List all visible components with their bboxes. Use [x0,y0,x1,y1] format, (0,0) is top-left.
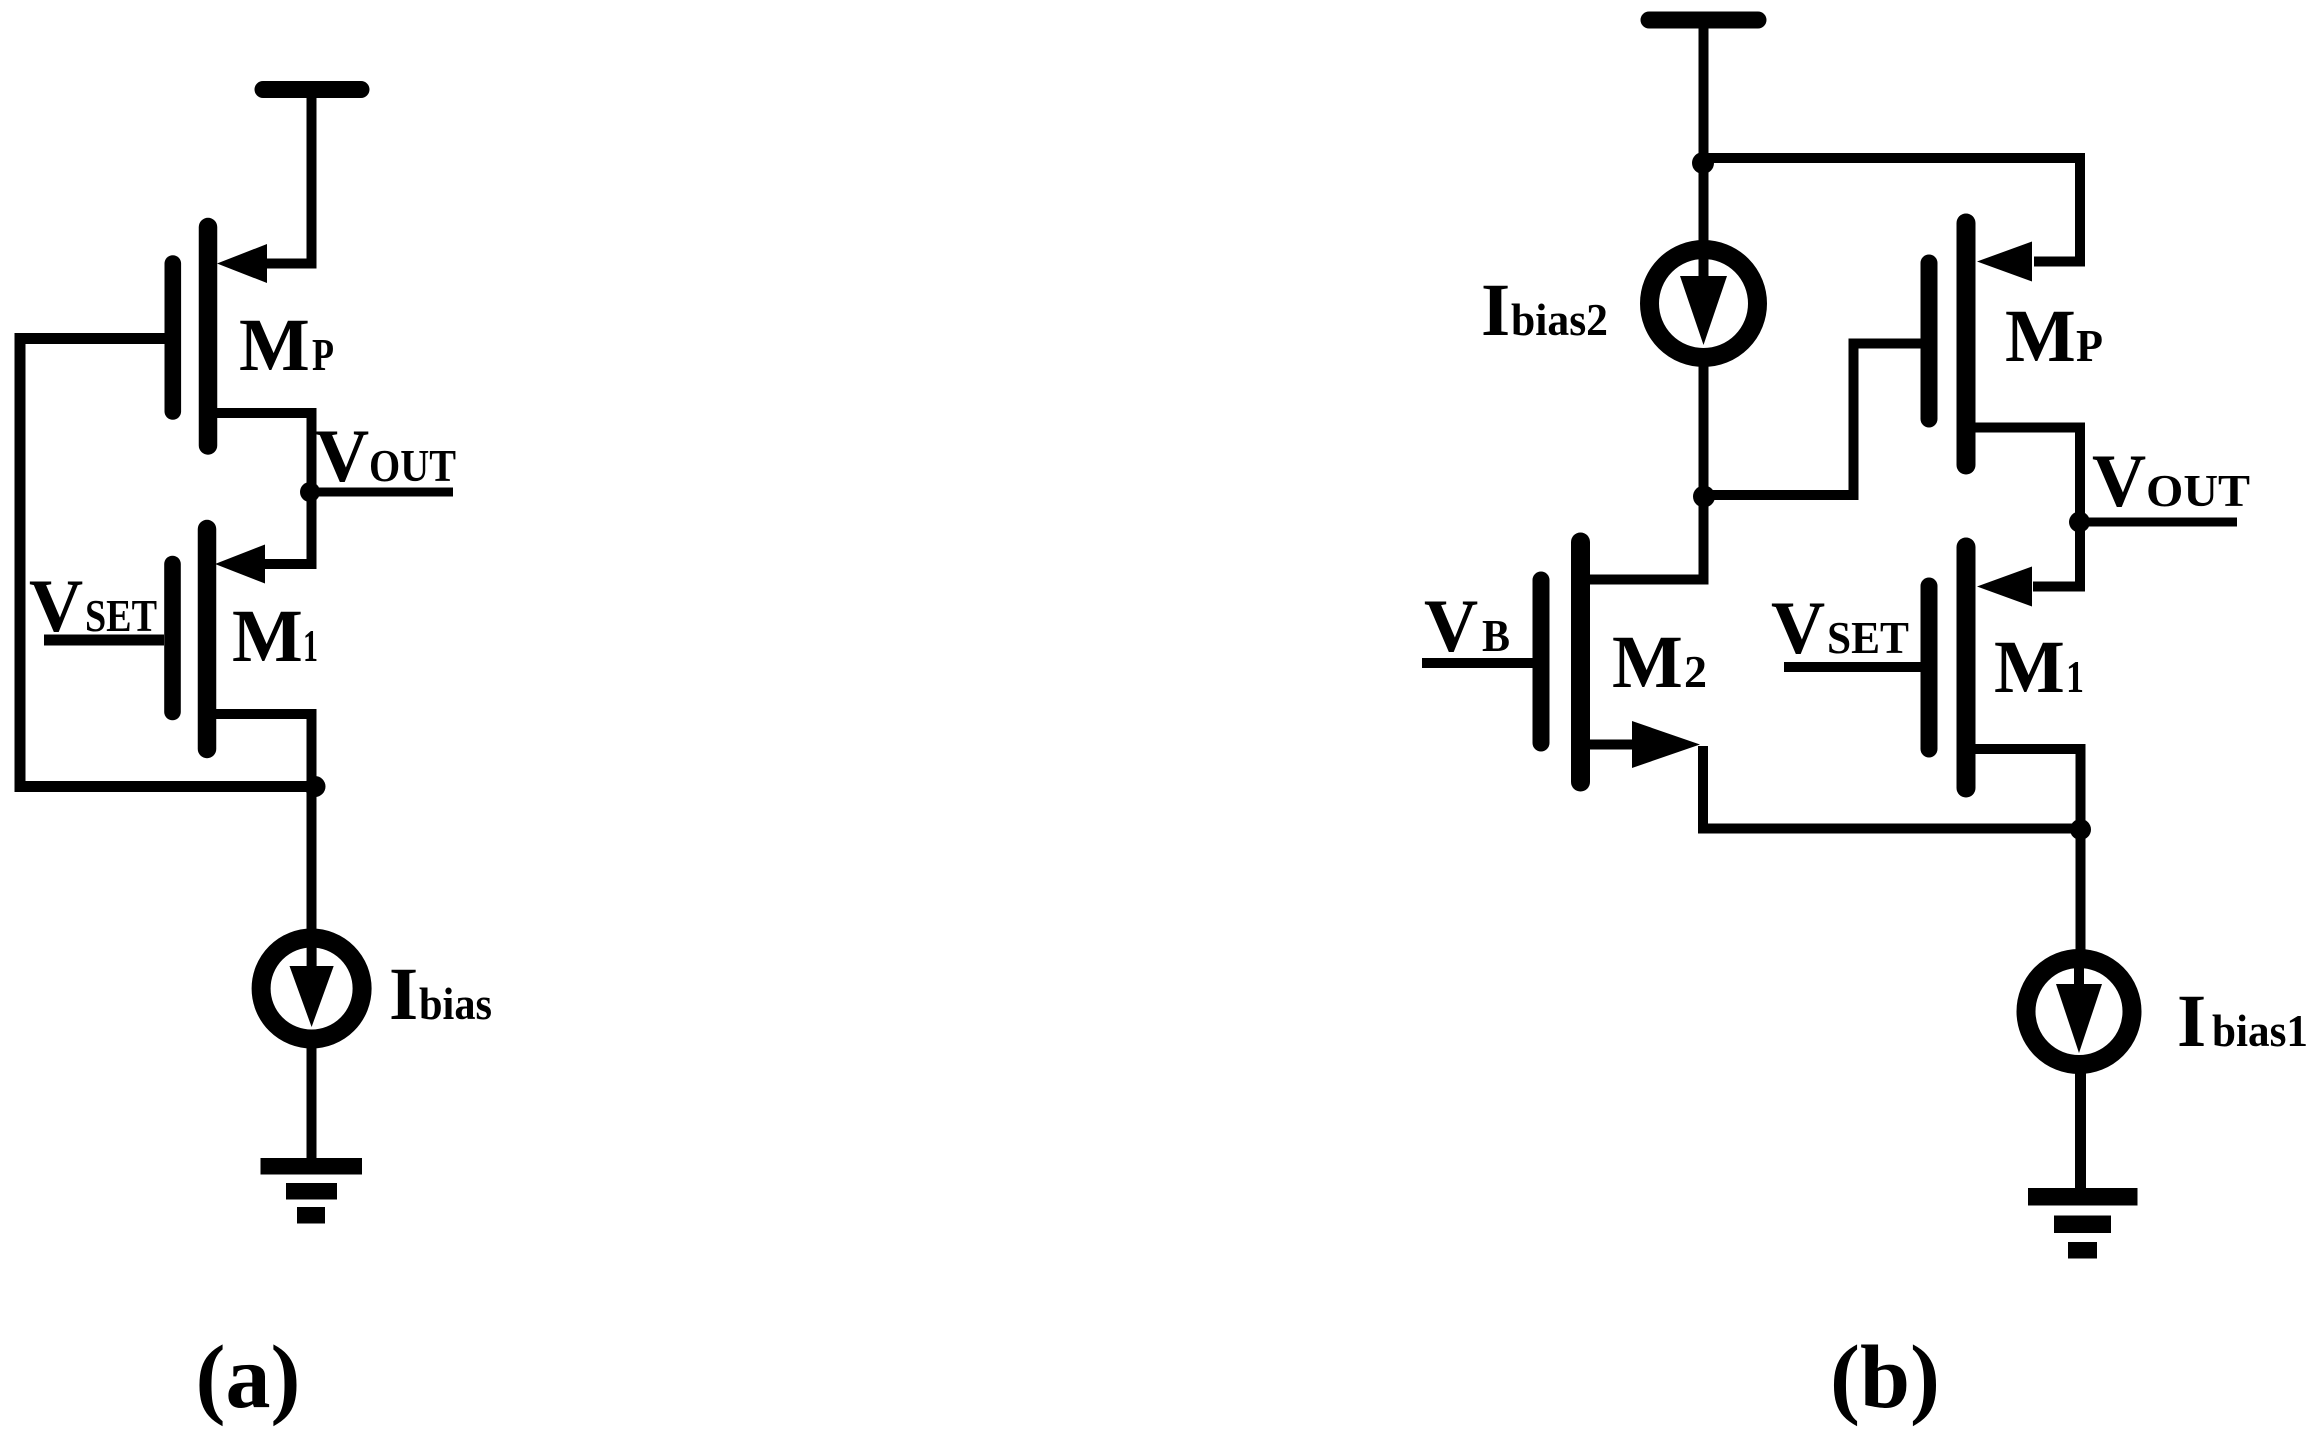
wire VOUT stub (b) [2079,518,2237,527]
ground bar 1 (a) [261,1158,363,1175]
Ibias1 arrow head (b) [2056,984,2102,1053]
ground bar 2 (a) [286,1183,337,1200]
svg-text:B: B [1482,610,1510,661]
wire Ibias to ground (a) [307,1044,317,1160]
wire M2 source down and right to tail (b) [1703,746,2076,829]
transistor M2 gate bar (b) [1533,580,1550,743]
power rail VDD (b) [1649,12,1758,29]
power rail VDD (a) [263,81,361,98]
current source Ibias circle (a) [261,938,362,1039]
wire Ibias1 to ground (b) [2075,1063,2086,1189]
svg-text:2: 2 [1684,646,1707,697]
transistor M1 channel bar (b) [1957,547,1976,788]
current source Ibias2 circle (b) [1650,250,1758,358]
svg-text:I: I [2177,980,2206,1063]
wire MP gate loop (b) [1709,344,1921,496]
wire VDD down to rail node (b) [1699,20,1709,248]
Ibias arrow stem (a) [307,946,317,982]
wire VB to M2 gate (b) [1422,658,1533,668]
Ibias1 arrow stem (b) [2074,962,2084,998]
tail feedback bottom wire (a) [15,781,315,792]
wire VOUT stub (a) [310,488,453,497]
transistor MP gate bar (a) [165,264,182,412]
ground bar 1 (b) [2028,1188,2138,1206]
svg-text:bias1: bias1 [2212,1005,2308,1056]
svg-text:bias2: bias2 [1511,294,1608,345]
svg-text:1: 1 [2066,651,2084,702]
svg-text:1: 1 [303,620,318,671]
feedback wire left vertical (a) [15,333,26,792]
current source Ibias1 circle (b) [2026,959,2132,1065]
Ibias2 arrow head (b) [1680,276,1727,345]
ground bar 3 (b) [2068,1242,2097,1259]
wire M2 source (b) [1580,740,1640,750]
node gate junction (b) [1693,486,1715,508]
ground bar 2 (b) [2054,1216,2111,1234]
svg-text:bias: bias [419,978,492,1029]
wire VSET to M1 gate (b) [1784,662,1921,672]
transistor M2 channel bar (b) [1571,542,1590,782]
wire VDD down to MP source (a) [264,90,312,264]
svg-text:P: P [2076,320,2103,371]
ground bar 3 (a) [297,1207,325,1224]
svg-text:SET: SET [85,590,157,641]
transistor M1 gate bar (b) [1921,586,1938,749]
svg-text:V: V [29,565,83,648]
wire M2 drain (b) [1580,575,1708,585]
svg-text:(b): (b) [1830,1328,1940,1427]
wire MP drain to VOUT node (b) [1966,428,2080,517]
wire M1 drain to tail node (a) [207,714,312,780]
wire rail node to MP source (b) [1704,158,2081,262]
transistor M1 source arrow (a) [215,545,265,584]
wire MP drain to VOUT node (a) [208,413,312,485]
Ibias arrow head (a) [290,966,334,1027]
transistor MP gate bar (b) [1921,263,1938,419]
svg-text:I: I [389,953,418,1036]
svg-text:(a): (a) [196,1328,301,1427]
svg-text:OUT: OUT [369,440,456,491]
svg-text:V: V [315,415,369,498]
wire tail node to Ibias (a) [307,787,317,935]
wire VSET to M1 gate (a) [44,635,164,646]
transistor MP source arrow (b) [1977,242,2032,282]
node tail junction (a) [305,776,326,797]
transistor M1 channel bar (a) [198,529,217,749]
svg-text:SET: SET [1827,612,1909,663]
transistor M2 source arrow (b) [1632,721,1700,768]
svg-text:V: V [1424,585,1478,668]
node VOUT (a) [300,482,320,502]
transistor MP channel bar (a) [199,227,218,446]
wire M1 source to VOUT node (b) [2033,527,2080,587]
wire MP gate to feedback (a) [15,333,165,344]
svg-text:I: I [1481,269,1510,352]
svg-text:M: M [239,304,310,387]
svg-text:P: P [312,329,334,380]
svg-text:M: M [2005,295,2076,378]
svg-text:M: M [1612,621,1683,704]
wire M1 drain to tail node (b) [1966,749,2081,822]
node tail junction (b) [2070,819,2091,840]
wire VOUT node to M1 source (a) [264,492,312,564]
transistor MP channel bar (b) [1957,223,1976,465]
transistor M1 gate bar (a) [164,564,181,712]
node VOUT (b) [2069,512,2090,533]
transistor M1 source arrow (b) [1977,567,2032,607]
svg-text:M: M [1994,626,2065,709]
svg-text:M: M [232,595,303,678]
wire tail node to Ibias1 (b) [2076,830,2086,955]
Ibias2 arrow stem (b) [1699,253,1709,290]
svg-text:V: V [2092,440,2146,523]
wire Ibias2 to gate node and M2 drain (b) [1699,362,1709,585]
svg-text:OUT: OUT [2146,465,2250,516]
svg-text:V: V [1771,587,1825,670]
transistor MP source arrow (a) [217,244,267,283]
node VDD junction (b) [1692,152,1714,174]
